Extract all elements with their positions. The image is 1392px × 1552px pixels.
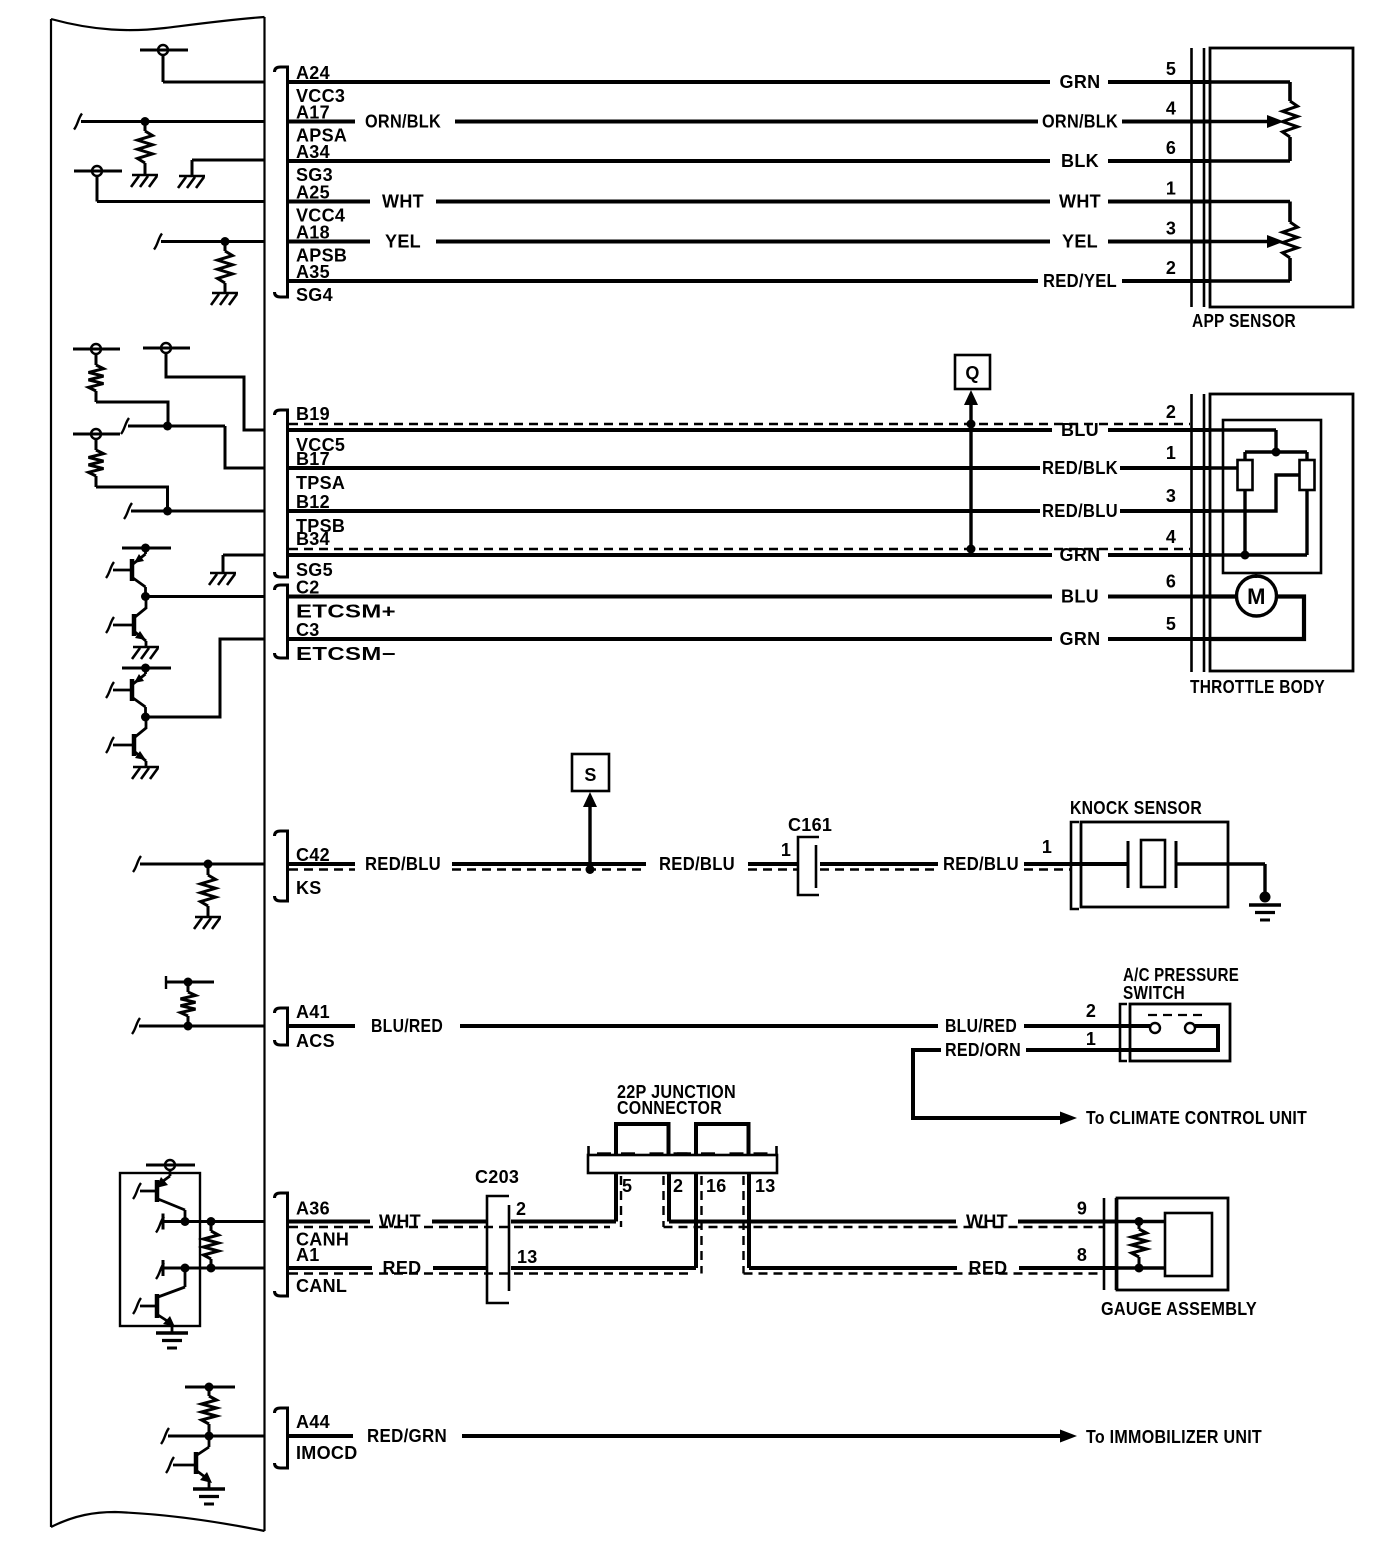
- resistor gauge CAN terminator: [1138, 1222, 1141, 1230]
- junction shield B19: [967, 420, 976, 429]
- svg-text:RED/GRN: RED/GRN: [367, 1426, 447, 1446]
- ECM module left border: [50, 19, 52, 1527]
- svg-text:S: S: [584, 765, 596, 785]
- junction shield B34: [967, 545, 976, 554]
- svg-text:GRN: GRN: [1060, 629, 1101, 649]
- pin bracket ECM connector A (APP sensor pins): [275, 67, 288, 297]
- svg-text:RED/BLU: RED/BLU: [365, 854, 441, 874]
- transistor Q2 ETCSM+ low side: [132, 614, 137, 636]
- svg-text:2: 2: [673, 1176, 683, 1196]
- wire pin1 to element A: [1210, 466, 1238, 469]
- svg-text:BLU: BLU: [1061, 420, 1099, 440]
- supply rail ETCSM- driver: [122, 667, 171, 670]
- wire RED/ORN to climate control: [913, 1050, 1060, 1118]
- svg-text:CONNECTOR: CONNECTOR: [617, 1098, 722, 1118]
- supply rail IMOCD pull-up: [185, 1386, 235, 1389]
- svg-text:RED/YEL: RED/YEL: [1043, 271, 1117, 291]
- supply rail ACS pull-up: [165, 981, 214, 984]
- wire ETCSM+ to C2 pin: [146, 595, 265, 598]
- TPS inner box: [1223, 420, 1321, 573]
- wire C3 GRN: [289, 637, 1052, 641]
- resistor TPSA pull-up: [95, 354, 98, 365]
- wire A41 BLU/RED segment 1: [289, 1024, 355, 1028]
- wire A1 RED segment 2: [433, 1266, 486, 1270]
- ECM torn top edge: [51, 17, 265, 30]
- wire A24 GRN: [289, 80, 1050, 84]
- svg-text:BLU/RED: BLU/RED: [945, 1016, 1017, 1036]
- wire pin2 to TPS top net: [1210, 428, 1276, 431]
- junction SG5 net: [1241, 551, 1250, 560]
- inline connector C203: [487, 1196, 509, 1303]
- resistor TPSB pull-up: [95, 439, 98, 450]
- transistor Q7 IMOCD driver: [208, 1436, 211, 1447]
- CAN driver box: [120, 1173, 200, 1326]
- transistor Q1 ETCSM+ high side: [144, 548, 147, 554]
- gauge assembly box: [1117, 1198, 1228, 1290]
- svg-text:16: 16: [706, 1176, 727, 1196]
- TPS sensor element B: [1300, 460, 1315, 490]
- wire WHT to gauge connector: [1018, 1220, 1117, 1224]
- shield dashed KS segment 1: [289, 868, 355, 870]
- switch actuation dashed: [1148, 1014, 1205, 1016]
- gauge CAN module box: [1165, 1213, 1212, 1276]
- wire resistor to B17 net: [96, 402, 168, 426]
- motor M throttle actuator: [1237, 576, 1277, 616]
- wire Q4 emitter to ground: [145, 761, 148, 767]
- svg-text:RED/BLK: RED/BLK: [1042, 458, 1118, 478]
- svg-text:9: 9: [1077, 1199, 1087, 1219]
- svg-text:SWITCH: SWITCH: [1123, 983, 1185, 1003]
- svg-text:ETCSM+: ETCSM+: [296, 602, 396, 622]
- resistor ACS pull-up: [187, 982, 190, 992]
- wire Q3 to output node: [144, 707, 147, 717]
- svg-text:13: 13: [755, 1176, 776, 1196]
- wire BLU/RED to switch: [1024, 1024, 1150, 1028]
- svg-text:GAUGE ASSEMBLY: GAUGE ASSEMBLY: [1101, 1299, 1257, 1319]
- junction CANH terminator: [207, 1217, 216, 1226]
- resistor APSB pull-down: [224, 242, 227, 252]
- svg-text:5: 5: [622, 1176, 632, 1196]
- wire A44 RED/GRN segment 1: [289, 1434, 353, 1438]
- junction Q5 CANH: [181, 1217, 190, 1226]
- wire A34 BLK: [289, 159, 1050, 163]
- wire CANH inside ECM: [162, 1214, 165, 1230]
- svg-text:1: 1: [1042, 837, 1052, 857]
- ground chassis KS: [195, 916, 221, 919]
- node TPSB pull-up supply: [91, 429, 101, 439]
- node TPSA pull-up supply: [91, 344, 101, 354]
- junction Q6 CANL: [181, 1264, 190, 1273]
- supply rail ETCSM+ driver: [122, 547, 171, 550]
- junction on A17: [141, 117, 150, 126]
- wire WHT inside gauge: [1117, 1220, 1165, 1223]
- ground IMOCD: [193, 1487, 225, 1490]
- wire A17 to connector: [1122, 120, 1210, 124]
- wire A1 RED segment 1: [289, 1266, 372, 1270]
- svg-text:1: 1: [1166, 179, 1176, 199]
- connector strip gauge assembly: [1103, 1198, 1106, 1290]
- shield dashed RED left: [289, 1272, 690, 1274]
- ground CAN driver: [156, 1331, 188, 1334]
- svg-text:BLU: BLU: [1061, 587, 1099, 607]
- wire B19 BLU: [289, 428, 1052, 432]
- connector strip APP sensor: [1190, 48, 1193, 307]
- svg-text:4: 4: [1166, 99, 1176, 119]
- junction TPS top net: [1272, 448, 1281, 457]
- svg-text:C161: C161: [788, 815, 832, 835]
- junction B12 net: [163, 507, 172, 516]
- wire node to A25: [96, 176, 99, 202]
- junction shield KS: [586, 865, 595, 874]
- svg-text:1: 1: [1086, 1029, 1096, 1049]
- wire ETCSM- to C3 pin: [146, 639, 265, 717]
- wire element B bottom: [1305, 490, 1308, 555]
- svg-text:6: 6: [1166, 138, 1176, 158]
- svg-text:IMOCD: IMOCD: [296, 1443, 358, 1463]
- svg-text:1: 1: [1166, 443, 1176, 463]
- wire B17 to connector: [1120, 466, 1210, 470]
- transistor Q4 ETCSM- low side: [132, 734, 137, 756]
- ground chassis Q4: [133, 766, 159, 769]
- wire CANL inside ECM: [162, 1260, 165, 1276]
- svg-text:A/C PRESSURE: A/C PRESSURE: [1123, 965, 1239, 985]
- 22P junction connector busbar: [588, 1155, 777, 1173]
- wire into knock sensor: [1024, 862, 1128, 866]
- wire B12 inside ECM: [124, 503, 132, 519]
- wire A35 RED/YEL: [289, 279, 1038, 283]
- svg-text:BLU/RED: BLU/RED: [371, 1016, 443, 1036]
- resistor APSA pull-down: [144, 122, 147, 132]
- svg-text:RED: RED: [383, 1258, 422, 1278]
- transistor Q6 CAN low side: [184, 1268, 187, 1287]
- svg-text:M: M: [1247, 584, 1266, 609]
- wire element A bottom: [1243, 490, 1246, 555]
- svg-text:BLK: BLK: [1061, 151, 1099, 171]
- A/C pressure switch box: [1130, 1004, 1230, 1061]
- A/C switch connector bracket: [1120, 1004, 1127, 1061]
- svg-text:TPSA: TPSA: [296, 473, 345, 493]
- svg-text:5: 5: [1166, 59, 1176, 79]
- svg-text:RED/BLU: RED/BLU: [659, 854, 735, 874]
- svg-text:ACS: ACS: [296, 1031, 335, 1051]
- ground knock sensor: [1260, 892, 1271, 903]
- shield dashed KS segment 2: [452, 868, 646, 870]
- wire A17 ORN/BLK: [289, 120, 355, 124]
- svg-text:YEL: YEL: [385, 232, 421, 252]
- svg-text:GRN: GRN: [1060, 545, 1101, 565]
- switch internal path: [1130, 1026, 1218, 1050]
- pin bracket ECM connector B (TPS pins): [275, 410, 288, 577]
- switch contact right: [1185, 1023, 1195, 1033]
- wire A36 WHT segment 2: [432, 1220, 486, 1224]
- svg-text:2: 2: [1166, 258, 1176, 278]
- wire A25 to connector: [1108, 200, 1210, 204]
- wire A18 to connector: [1108, 240, 1210, 244]
- wire ACS inside ECM: [132, 1018, 140, 1034]
- svg-text:3: 3: [1166, 219, 1176, 239]
- svg-text:ORN/BLK: ORN/BLK: [1042, 112, 1118, 132]
- wire C3 to connector: [1108, 637, 1210, 641]
- wire A17 inside ECM: [74, 114, 82, 130]
- wire B34 GRN: [289, 553, 1052, 557]
- ground chassis APSB: [212, 292, 238, 295]
- wire A34 to connector: [1108, 159, 1210, 163]
- wire Q5 to CANH: [184, 1210, 187, 1222]
- wire KS inside ECM: [133, 856, 141, 872]
- wire A44 RED/GRN segment 2: [462, 1434, 1060, 1438]
- resistor KS pull: [207, 864, 210, 875]
- wire RED C203 to junction leg 16: [511, 1266, 696, 1270]
- junction IMOCD: [205, 1432, 214, 1441]
- svg-text:A1: A1: [296, 1245, 320, 1265]
- wire RED/BLU after C161: [820, 862, 938, 866]
- ground chassis APSA: [132, 174, 158, 177]
- svg-text:SG4: SG4: [296, 285, 333, 305]
- wire WHT C203 to junction leg 5: [511, 1220, 616, 1224]
- shield dashed WHT left: [289, 1226, 610, 1228]
- svg-text:WHT: WHT: [966, 1212, 1008, 1232]
- svg-text:KNOCK SENSOR: KNOCK SENSOR: [1070, 798, 1202, 818]
- wire resistor to B12 net: [96, 487, 168, 511]
- wire RED to gauge connector: [1019, 1266, 1117, 1270]
- wire SG5 to ground: [223, 554, 265, 557]
- junction ACS: [184, 1022, 193, 1031]
- pin bracket ECM connector A44: [275, 1408, 288, 1468]
- potentiometer APP sensor B: [1210, 200, 1290, 204]
- junction ETCSM+ output: [141, 592, 150, 601]
- shield dashed KS segment 3: [748, 868, 797, 870]
- node CAN driver supply: [165, 1160, 175, 1170]
- wire IMOCD inside ECM: [161, 1428, 169, 1444]
- wire pin3 to element B: [1210, 475, 1300, 511]
- svg-text:ORN/BLK: ORN/BLK: [365, 112, 441, 132]
- svg-text:KS: KS: [296, 878, 322, 898]
- ground chassis SG3: [179, 175, 205, 178]
- TPS sensor element A: [1238, 460, 1253, 490]
- potentiometer APP sensor A: [1210, 80, 1290, 84]
- svg-text:WHT: WHT: [1059, 192, 1101, 212]
- node VCC3 supply: [158, 45, 168, 55]
- connector ref box Q: [955, 355, 990, 389]
- ECM torn bottom edge: [51, 1512, 265, 1531]
- pin bracket ECM connector C42: [275, 831, 288, 901]
- ground chassis SG5: [210, 572, 236, 575]
- wire C42 RED/BLU segment 3: [748, 862, 797, 866]
- inline connector C161: [798, 837, 819, 895]
- svg-text:2: 2: [1166, 402, 1176, 422]
- connector strip throttle body: [1190, 394, 1193, 672]
- junction connector jumper 2: [696, 1124, 749, 1155]
- svg-text:A36: A36: [296, 1199, 330, 1219]
- resistor IMOCD pull-up: [208, 1387, 211, 1396]
- connector ref box S: [572, 754, 609, 791]
- wire Q7 emitter to ground: [208, 1480, 211, 1489]
- arrow to immobilizer unit: [1060, 1430, 1077, 1443]
- svg-text:A44: A44: [296, 1412, 330, 1432]
- TPS top net bus: [1245, 450, 1307, 453]
- piezo element plates: [1127, 841, 1130, 888]
- junction CANL terminator: [207, 1264, 216, 1273]
- arrow to climate control unit: [1060, 1112, 1077, 1125]
- shield wire dashed B19: [289, 423, 1190, 425]
- svg-text:RED: RED: [969, 1258, 1008, 1278]
- svg-text:C203: C203: [475, 1167, 519, 1187]
- wire pin4 SG5 net: [1210, 553, 1307, 556]
- shield drain wire to S: [583, 792, 597, 807]
- svg-text:B34: B34: [296, 529, 330, 549]
- terminating resistor CANH-CANL: [210, 1222, 213, 1232]
- svg-text:3: 3: [1166, 486, 1176, 506]
- wire A18 inside ECM: [154, 234, 162, 250]
- svg-text:RED/BLU: RED/BLU: [1042, 501, 1118, 521]
- knock sensor connector bracket: [1071, 822, 1079, 909]
- transistor Q3 ETCSM- high side: [144, 668, 147, 674]
- svg-text:13: 13: [517, 1247, 538, 1267]
- junction gauge resistor bottom: [1135, 1264, 1144, 1273]
- wire pin6 to motor: [1210, 594, 1237, 598]
- transistor Q5 CAN high side: [169, 1170, 172, 1176]
- wire SG3 to ground: [192, 159, 265, 162]
- svg-text:APP SENSOR: APP SENSOR: [1192, 311, 1296, 331]
- wire Q2 emitter to ground: [145, 641, 148, 647]
- svg-text:2: 2: [516, 1199, 526, 1219]
- wire C42 RED/BLU segment 2: [452, 862, 646, 866]
- wiper arrow APS B: [1210, 240, 1268, 244]
- switch contact left: [1150, 1023, 1160, 1033]
- svg-text:4: 4: [1166, 527, 1176, 547]
- wire A24 to connector: [1108, 80, 1210, 84]
- stub TPS box to motor: [1255, 573, 1258, 578]
- junction connector jumper 1: [616, 1124, 669, 1155]
- pin bracket ECM connector A41: [275, 1008, 288, 1045]
- svg-text:2: 2: [1086, 1001, 1096, 1021]
- wire jog to B17 pin: [225, 426, 265, 468]
- svg-text:ETCSM−: ETCSM−: [296, 644, 396, 664]
- svg-text:WHT: WHT: [382, 192, 424, 212]
- wire RED/ORN from switch: [1026, 1048, 1130, 1052]
- svg-text:GRN: GRN: [1060, 72, 1101, 92]
- junction on A18: [221, 237, 230, 246]
- svg-text:8: 8: [1077, 1245, 1087, 1265]
- wire motor to pin5: [1210, 597, 1304, 640]
- wire element to ground: [1176, 862, 1265, 865]
- svg-text:To CLIMATE CONTROL UNIT: To CLIMATE CONTROL UNIT: [1086, 1108, 1307, 1128]
- svg-text:WHT: WHT: [379, 1212, 421, 1232]
- svg-text:To IMMOBILIZER UNIT: To IMMOBILIZER UNIT: [1086, 1427, 1262, 1447]
- junction connector contact seats: [597, 1152, 611, 1154]
- svg-text:A41: A41: [296, 1002, 330, 1022]
- wire RED junction leg 13 to gauge: [747, 1173, 751, 1268]
- ECM module right border: [263, 17, 265, 1531]
- wire node to A24: [162, 55, 165, 82]
- wire A35 to connector: [1122, 279, 1210, 283]
- node VCC5 supply: [161, 343, 171, 353]
- wire B34 to connector: [1108, 553, 1210, 557]
- svg-text:Q: Q: [965, 363, 979, 383]
- svg-text:RED/ORN: RED/ORN: [945, 1040, 1021, 1060]
- junction gauge resistor top: [1135, 1217, 1144, 1226]
- svg-text:RED/BLU: RED/BLU: [943, 854, 1019, 874]
- wire Q1 to output node: [144, 587, 147, 597]
- svg-text:5: 5: [1166, 614, 1176, 634]
- junction ETCSM- output: [141, 713, 150, 722]
- wire B12 RED/BLU: [289, 509, 1040, 513]
- shield drain wire to Q: [964, 390, 978, 405]
- wire A18 YEL: [289, 240, 370, 244]
- wire B17 inside ECM: [121, 418, 129, 434]
- svg-text:1: 1: [781, 840, 791, 860]
- wire A25 WHT: [289, 200, 370, 204]
- wiper arrow APS A: [1210, 120, 1268, 124]
- wire C2 to connector: [1108, 595, 1210, 599]
- pin bracket ECM connector C (ETCS motor pins): [275, 585, 288, 658]
- wire Q6 emitter to ground: [171, 1324, 174, 1333]
- junction KS: [204, 860, 213, 869]
- wire A41 BLU/RED segment 2: [460, 1024, 938, 1028]
- wire node to B19: [166, 353, 265, 430]
- wire A36 WHT segment 1: [289, 1220, 370, 1224]
- svg-text:CANL: CANL: [296, 1276, 347, 1296]
- shield dashed RED right: [744, 1272, 1105, 1274]
- wire C42 RED/BLU segment 1: [289, 862, 355, 866]
- svg-text:B19: B19: [296, 404, 330, 424]
- svg-text:THROTTLE BODY: THROTTLE BODY: [1190, 677, 1325, 697]
- svg-text:YEL: YEL: [1062, 232, 1098, 252]
- wire B19 to connector: [1108, 428, 1210, 432]
- pin bracket ECM connector A36/A1: [275, 1193, 288, 1296]
- junction B17 net: [163, 422, 172, 431]
- knock sensor box: [1081, 822, 1228, 907]
- ground chassis Q2: [133, 646, 159, 649]
- shield dashed WHT right: [664, 1226, 1105, 1228]
- wire WHT junction leg 2 to gauge: [667, 1173, 671, 1222]
- wire RED inside gauge: [1117, 1266, 1165, 1269]
- throttle body box: [1210, 394, 1353, 671]
- svg-text:6: 6: [1166, 572, 1176, 592]
- shield wire dashed B34: [289, 548, 1190, 550]
- wire C2 BLU: [289, 595, 1052, 599]
- wire B12 to connector: [1120, 509, 1210, 513]
- wire B17 RED/BLK: [289, 466, 1040, 470]
- node VCC4 supply: [92, 166, 102, 176]
- APP sensor box: [1210, 48, 1353, 307]
